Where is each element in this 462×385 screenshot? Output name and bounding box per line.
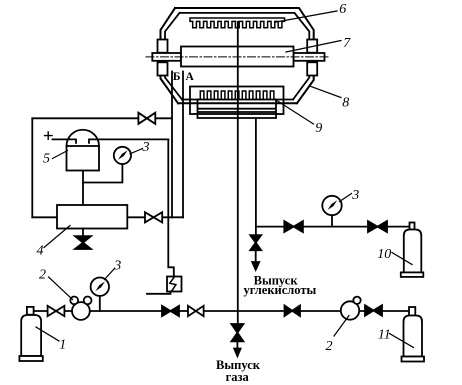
svg-text:3: 3 <box>142 140 150 155</box>
sensor zigzag <box>170 277 176 290</box>
pipe box4 right with valve <box>127 216 183 218</box>
pipe A <box>182 72 184 218</box>
electrode lead left <box>53 139 77 142</box>
heater comb 6 <box>190 18 285 28</box>
leader 4 <box>44 226 70 248</box>
sensor box <box>167 277 182 292</box>
leader 8 <box>311 87 341 98</box>
svg-text:5: 5 <box>43 152 50 167</box>
regulator 2 left knob A <box>70 297 78 305</box>
leader 3 bottom-left <box>105 269 115 280</box>
electrolyzer 5 box <box>67 146 100 171</box>
svg-text:газа: газа <box>226 370 250 384</box>
electrode lead right <box>89 139 168 142</box>
wire down to sensor <box>168 139 174 276</box>
svg-text:углекислоты: углекислоты <box>243 283 316 297</box>
valve open bottom <box>188 306 204 316</box>
gauge 3 bottom left <box>91 278 109 296</box>
electrolyzer 5 dome <box>67 130 100 146</box>
svg-text:А: А <box>185 71 194 83</box>
chamber bottom outer wall <box>178 102 297 104</box>
leader 1 <box>36 327 59 341</box>
leader 2 right <box>334 316 349 337</box>
regulator 2 right body <box>341 301 359 319</box>
bottom main line <box>34 310 409 312</box>
svg-text:4: 4 <box>37 243 44 258</box>
valve top-left <box>138 113 155 124</box>
leader 7 <box>286 41 341 53</box>
cylinder 1 body <box>21 315 41 356</box>
chamber inner wall <box>165 13 309 100</box>
CO2 pipe <box>255 118 257 235</box>
cylinder 10 body <box>404 230 422 273</box>
center line <box>237 22 239 324</box>
stem device5 to box4 <box>82 171 84 206</box>
shaft right <box>294 53 325 61</box>
leader 2 left <box>49 277 73 300</box>
box4 drain valve (filled) <box>75 236 91 242</box>
valve filled branch 1 <box>284 221 303 232</box>
box4 drain stem <box>82 229 84 237</box>
valve filled bottom 3 <box>365 305 382 316</box>
bearing block left upper <box>158 40 168 53</box>
drum 7 <box>181 47 294 67</box>
CO2 release valve (filled) <box>250 235 261 243</box>
top left pipe <box>32 117 172 119</box>
pipe to box 4 left <box>32 216 57 218</box>
cylinder 11 body <box>404 316 423 357</box>
svg-text:7: 7 <box>343 36 351 51</box>
leader 11 <box>390 334 414 348</box>
regulator 2 left body <box>72 302 90 320</box>
box 4 <box>57 205 127 229</box>
regulator 2 right knob <box>353 297 360 304</box>
svg-text:Б: Б <box>173 71 181 83</box>
svg-text:2: 2 <box>326 339 333 354</box>
valve filled bottom 1 <box>162 306 179 316</box>
svg-text:9: 9 <box>315 121 322 136</box>
tray 9 outer box <box>190 87 284 115</box>
leader 9 <box>278 101 314 124</box>
svg-text:6: 6 <box>339 2 346 17</box>
cylinder 11 cap <box>409 307 415 316</box>
needle bottom gauge <box>95 282 105 292</box>
gauge 3 left <box>114 147 131 164</box>
regulator 2 left knob B <box>84 297 92 305</box>
CO2 branch line <box>256 226 410 228</box>
gauge 3 right stem <box>331 215 333 226</box>
needle right gauge <box>328 200 338 210</box>
svg-text:3: 3 <box>113 258 121 273</box>
gas release valve (filled) <box>231 324 243 333</box>
svg-text:2: 2 <box>39 268 46 283</box>
svg-text:3: 3 <box>351 188 359 203</box>
pipe B <box>171 72 173 218</box>
cylinder 11 foot <box>402 357 425 362</box>
svg-text:1: 1 <box>59 337 66 352</box>
svg-text:8: 8 <box>342 96 349 111</box>
valve filled bottom 2 <box>285 305 301 316</box>
gauge 3 bottom stem <box>99 296 101 311</box>
cylinder 1 foot <box>19 356 42 361</box>
plus terminal <box>45 132 53 139</box>
svg-text:10: 10 <box>377 247 391 262</box>
valve mid-left <box>145 212 162 222</box>
svg-text:11: 11 <box>378 327 391 342</box>
shaft axis dash-dot <box>146 56 328 58</box>
shaft left <box>152 53 181 61</box>
valve filled branch 2 <box>368 221 387 232</box>
bearing block right upper <box>307 40 317 53</box>
leader 3 top-left <box>130 149 143 154</box>
tray 9 comb teeth <box>199 91 276 100</box>
left riser <box>31 118 33 217</box>
leader 6 <box>276 11 337 22</box>
cylinder 10 cap <box>410 223 415 230</box>
CO2 release arrow <box>255 250 257 262</box>
leader 10 <box>392 253 412 265</box>
leader 3 right <box>340 194 352 202</box>
chamber outer wall <box>161 8 314 103</box>
tray 9 inner box <box>198 100 277 119</box>
sensor ground lead <box>147 292 171 294</box>
bearing block right lower <box>307 62 317 75</box>
cylinder 1 cap <box>27 307 34 315</box>
chamber bottom inner wall <box>182 99 293 101</box>
cylinder 10 foot <box>401 272 424 277</box>
gauge 3 left stem <box>83 164 122 183</box>
gauge 3 right <box>322 196 341 215</box>
leader 5 <box>53 151 68 159</box>
needle left gauge <box>118 150 128 160</box>
bearing block left lower <box>158 62 168 75</box>
valve bottom far-left <box>48 306 65 316</box>
gas release arrow <box>236 341 238 348</box>
